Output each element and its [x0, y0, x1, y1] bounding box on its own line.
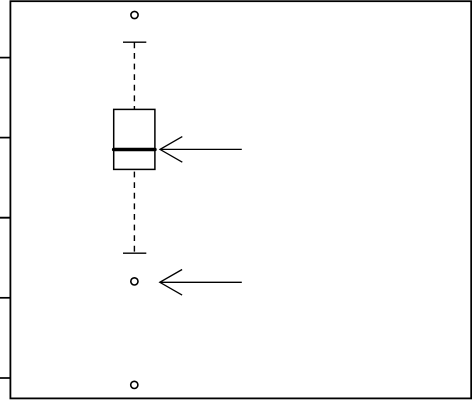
arrow 1 head	[160, 137, 182, 163]
arrow 2 shaft (points at outlier)	[160, 281, 242, 283]
lower whisker (dashed)	[133, 169, 135, 251]
axis tick 5	[0, 377, 10, 379]
box (IQR)	[114, 109, 155, 169]
outlier circle top	[131, 11, 138, 18]
arrow 2 head	[160, 270, 182, 296]
median line	[114, 148, 155, 152]
outlier circle middle	[131, 278, 138, 285]
upper whisker (dashed)	[133, 42, 135, 109]
axis tick 4	[0, 297, 10, 299]
lower whisker cap	[123, 252, 146, 254]
axis tick 1	[0, 57, 10, 59]
axis tick 3	[0, 217, 10, 219]
outlier circle bottom	[131, 381, 138, 388]
upper whisker cap	[123, 41, 146, 43]
axis tick 2	[0, 137, 10, 139]
arrow 1 shaft (points at median)	[160, 148, 242, 150]
